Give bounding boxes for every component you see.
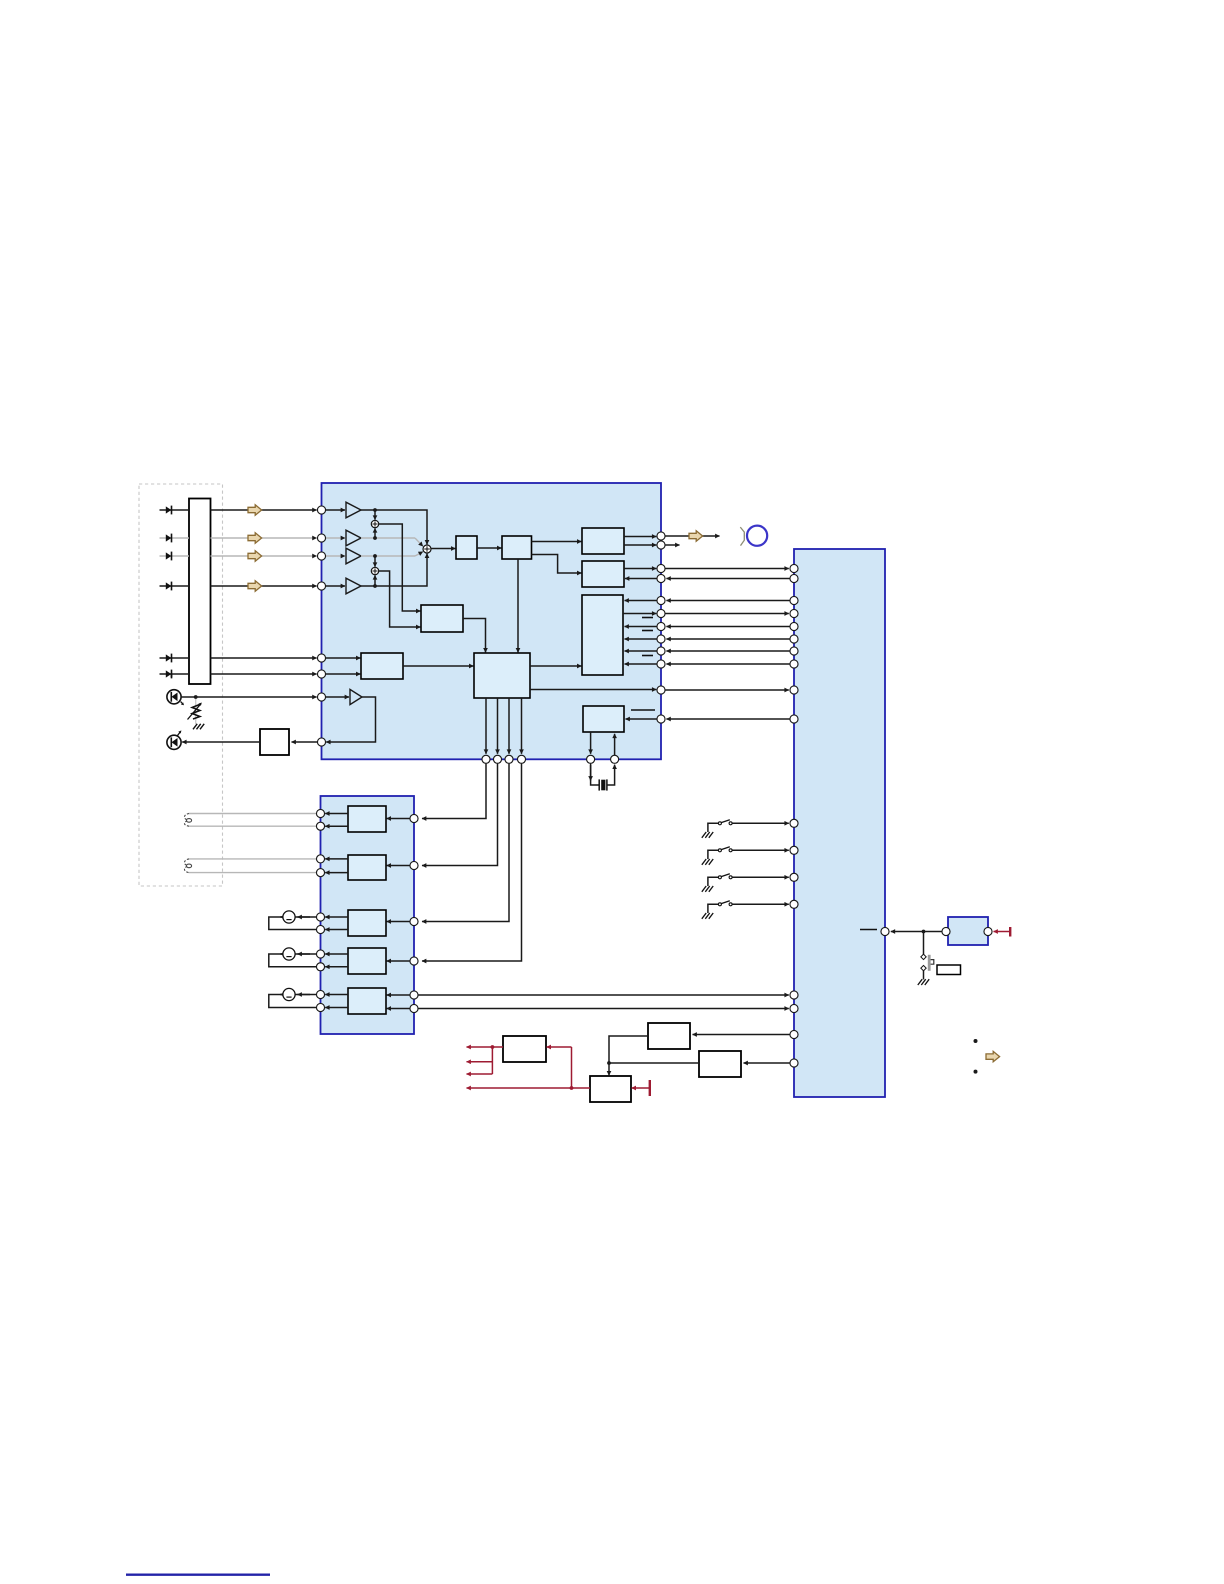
power switch S5 vertical — [923, 932, 925, 955]
wire U3 to U1 row 719 — [666, 718, 789, 720]
switch S5 to ground — [923, 970, 925, 979]
diagonal T3 to S3 — [415, 552, 423, 556]
wire B2 down to B8 — [517, 559, 519, 652]
stub T2 to S1 — [374, 528, 376, 538]
power terminal T1 — [649, 1080, 651, 1096]
wire U1 bottom1 to U2 — [422, 764, 486, 819]
headphone amp block U2 — [321, 796, 415, 1034]
wire U3 to U1 row 578 — [666, 578, 789, 580]
wire B4 out — [624, 568, 656, 570]
stub T1 to S1 — [374, 510, 376, 520]
pins U2 right edge — [410, 814, 418, 1012]
headphone amp ch block H1 — [348, 806, 386, 832]
power wire vertical 571 — [571, 1047, 573, 1088]
power terminal T2 — [1009, 927, 1011, 937]
junction node T1/S1 — [373, 508, 377, 512]
wire U1 bottom4 to U2 — [422, 764, 522, 961]
wire B9 bottom right (from crystal) — [614, 734, 616, 755]
crystal right wire — [607, 765, 615, 785]
label dash B5 c — [642, 655, 653, 657]
power wire into box A right — [547, 1046, 572, 1048]
wire pin to buffer T2 — [326, 537, 345, 539]
wire U3 to box C — [744, 1062, 790, 1064]
wire pin to B5 in5 — [625, 663, 657, 665]
wire B5 out — [623, 613, 656, 615]
wire row6 to U1 — [211, 673, 317, 675]
wire pin to buffer T1 — [326, 509, 345, 511]
wire pin to buffer T3 — [326, 555, 345, 557]
power wire U4 to terminal — [994, 931, 1010, 933]
power wire branch 2 — [467, 1061, 493, 1063]
pins U2 left edge — [316, 809, 324, 1011]
U2 in arrow row 961 — [387, 960, 410, 962]
buffer amp T5 — [350, 689, 362, 704]
diode D3 — [166, 552, 172, 561]
wire U3 to U1 row 651 — [666, 650, 789, 652]
wire B8 bottom 2 — [497, 698, 499, 754]
wire U2 to U3 row 1008 — [418, 1008, 788, 1010]
junction node T3/S2 — [373, 554, 377, 558]
wire node up to box B — [609, 1036, 648, 1063]
U2 out arrow row 954 — [325, 953, 348, 955]
wire U1 bottom2 to U2 — [422, 764, 498, 866]
switch S5 slider notch — [931, 960, 934, 965]
wire pin to B7 upper — [326, 657, 361, 659]
cable 2 end loop — [184, 859, 191, 873]
U2 out arrow row 917 — [325, 916, 348, 918]
I/O block B4 — [582, 561, 624, 587]
power wire D to terminal — [632, 1087, 650, 1089]
wire pin to B9 in — [626, 718, 657, 720]
wire S2 to B6 — [379, 571, 421, 627]
wire pin to B5 in4 — [625, 650, 657, 652]
crystal stub arrow — [590, 765, 592, 781]
dash label U3 right — [860, 929, 877, 931]
wire key input row 5 — [160, 657, 190, 659]
wire B2 to B3 — [532, 541, 582, 543]
footer link line — [126, 1573, 270, 1575]
wire U3 to U1 row 600 — [666, 600, 789, 602]
wire S1 to B6 — [379, 524, 421, 611]
serial interface block B5 — [582, 595, 623, 675]
pins U3 left edge — [790, 564, 798, 1067]
wire row5 to U1 — [211, 657, 317, 659]
wire pin536 to headphone — [665, 535, 719, 537]
wire B2 to B4 — [532, 555, 582, 574]
DAC block B3 — [582, 528, 624, 554]
power wire branch vertical — [491, 1047, 493, 1074]
wire U1 to box E — [292, 741, 322, 743]
wire B8 to B5 — [530, 665, 581, 667]
wire key input row 6 — [160, 673, 190, 675]
ground VR1 — [193, 724, 204, 730]
wire U3 to box B — [693, 1034, 790, 1036]
pins U1 bottom edge — [482, 755, 619, 763]
wire U3 to U1 row 664 — [666, 663, 789, 665]
U2 out arrow row 994 — [325, 994, 348, 996]
decor dot 1 — [974, 1039, 978, 1043]
pin U3 right edge — [881, 927, 889, 935]
U2 out arrow row 813 — [325, 813, 348, 815]
wire B8 bottom 4 — [521, 698, 523, 754]
stub T3 to S2 — [374, 556, 376, 567]
wire B3 out lower — [624, 544, 656, 546]
jack loop 3 — [269, 988, 317, 1007]
headphone cable 2 lower — [189, 872, 317, 874]
wire row3 to U1 — [211, 555, 317, 557]
junction node 571/1088 — [570, 1086, 574, 1090]
oscillator block B9 — [583, 706, 624, 732]
wire U3 right pin to U4 — [891, 931, 946, 933]
switch S5 contact lower — [921, 965, 926, 970]
LED D8 (power indicator) — [167, 730, 182, 749]
bus arrow olive 1 — [248, 505, 262, 515]
junction node 609 — [607, 1061, 611, 1065]
label dash B9 — [631, 709, 655, 711]
wire U1 to U3 row 568 — [665, 568, 788, 570]
wire key input row 2 — [160, 537, 190, 539]
wire pin545 stub — [665, 544, 679, 546]
wire node down to box D — [608, 1063, 610, 1075]
buffer amp T2 — [346, 530, 361, 546]
dashed enclosure (input panel) — [139, 484, 223, 886]
wire PD1 to U1 — [181, 696, 317, 698]
power wire A out left — [467, 1046, 504, 1048]
wire B8 bottom 1 — [485, 698, 487, 754]
wire box E to LED D8 — [182, 741, 260, 743]
sum circle S1 — [371, 520, 378, 527]
wire B3 out upper — [624, 536, 656, 538]
switch S5 slider bar — [928, 955, 931, 971]
wire T3 out — [361, 555, 415, 557]
filter block B1 — [456, 536, 477, 559]
line amp block H3 — [348, 910, 386, 936]
wire pin to B5 in3 — [625, 638, 657, 640]
U2 in arrow row 1008 — [387, 1008, 410, 1010]
junction node 492 — [491, 1045, 495, 1049]
wire T1 out to node S3 — [361, 510, 427, 544]
battery holder box F — [937, 965, 961, 975]
wire U3 to U1 row 626 — [666, 626, 789, 628]
wire row4 to U1 — [211, 585, 317, 587]
jack loop 2 — [269, 948, 317, 967]
crystal X1 — [599, 779, 607, 790]
wire U1 to U3 row 613 — [665, 613, 788, 615]
wire S3 to B1 — [431, 548, 455, 550]
remote sensor box E — [260, 729, 289, 755]
EEPROM box C — [699, 1051, 741, 1077]
wire U3 to U1 row 639 — [666, 638, 789, 640]
wire U1 bottom3 to U2 — [422, 764, 509, 922]
U2 out arrow row 858 — [325, 858, 348, 860]
wire U1 to U3 row 690 — [665, 689, 788, 691]
buffer amp T1 — [346, 502, 361, 518]
main IC block U1 — [322, 483, 662, 759]
diode D6 — [166, 670, 172, 679]
wire key input row 1 — [160, 509, 190, 511]
junction node T2/S1 — [373, 536, 377, 540]
buffer amp T3 — [346, 548, 361, 564]
LED PD1 (remote receiver) — [167, 690, 184, 706]
bus arrow olive 6 — [986, 1051, 1000, 1061]
diode D5 — [166, 654, 172, 663]
headphone cable 1 upper — [189, 813, 317, 815]
switch SW4 — [702, 901, 789, 919]
wire key input row 3 — [160, 555, 190, 557]
line amp block H5 — [348, 988, 386, 1014]
label dash B5 b — [642, 630, 653, 632]
junction node PD1/VR — [194, 695, 198, 699]
junction node 923 — [922, 930, 926, 934]
wire B1 to B2 — [477, 547, 501, 549]
DC-DC converter block U4 — [948, 917, 988, 945]
wire B8 to pin 690 — [530, 689, 656, 691]
junction node T4/S2 — [373, 584, 377, 588]
wire B6 to B8 — [463, 619, 486, 653]
diode D2 — [166, 534, 172, 543]
DSP core block B8 — [474, 653, 530, 698]
headphone cable 2 upper — [189, 858, 317, 860]
switch SW1 — [702, 820, 789, 838]
headphone jack symbol — [740, 526, 767, 546]
line amp block H4 — [348, 948, 386, 974]
power wire branch 3 — [467, 1073, 493, 1075]
wire pin to buffer T4 — [326, 585, 345, 587]
ADC block B7 — [361, 653, 403, 679]
bus arrow olive 3 — [248, 551, 262, 561]
wire pin to B5 in1 — [625, 600, 657, 602]
wire row2 to U1 — [211, 537, 317, 539]
U2 in arrow row 818 — [387, 818, 410, 820]
U2 out arrow row 929 — [325, 929, 348, 931]
headphone cable 1 lower — [189, 825, 317, 827]
wire B7 to B8 — [403, 665, 473, 667]
U2 in arrow row 921 — [387, 921, 410, 923]
buffer amp T4 — [346, 578, 361, 594]
U2 out arrow row 872 — [325, 872, 348, 874]
pins U1 right edge — [657, 532, 665, 723]
switch SW2 — [702, 847, 789, 865]
crystal circuit wires — [591, 764, 599, 785]
bus arrow olive 2 — [248, 533, 262, 543]
wire T5 loop to LED pin — [326, 697, 375, 742]
mixer block B6 — [421, 605, 463, 632]
ground S5 — [918, 979, 929, 985]
headphone amp ch block H2 — [348, 855, 386, 880]
label dash B5 a — [642, 617, 653, 619]
diagonal T2 to S3 — [415, 538, 423, 546]
U2 out arrow row 1007 — [325, 1007, 348, 1009]
reset IC box B — [648, 1023, 690, 1049]
decor dot 2 — [974, 1070, 978, 1074]
system control block U3 — [794, 549, 885, 1097]
wire key input row 4 — [160, 585, 190, 587]
wire row1 to U1 — [211, 509, 317, 511]
sum circle S2 — [371, 567, 378, 574]
switch S5 contact upper — [921, 954, 926, 959]
wire pin to B7 lower — [326, 673, 361, 675]
U2 out arrow row 826 — [325, 825, 348, 827]
jack loop 1 — [269, 911, 317, 930]
filter block B2 — [502, 536, 532, 559]
wire pin to B4 in — [625, 578, 657, 580]
power wire bottom rail — [467, 1087, 591, 1089]
wire U2 to U3 row 995 — [418, 994, 788, 996]
U2 out arrow row 966 — [325, 966, 348, 968]
switch SW3 — [702, 874, 789, 892]
regulator box A — [503, 1036, 546, 1062]
bus arrow olive 5 — [689, 531, 703, 541]
variable resistor VR1 — [188, 697, 202, 724]
diode D1 — [166, 506, 172, 515]
wire T4 out to node S3 — [361, 554, 427, 586]
wire box C to node — [609, 1062, 699, 1064]
wire B8 bottom 3 — [508, 698, 510, 754]
connector J1 — [189, 499, 211, 685]
wire pin to B5 in2 — [625, 626, 657, 628]
wire pin to buffer T5 — [326, 696, 349, 698]
pins U4 — [942, 927, 992, 935]
diode D4 — [166, 582, 172, 591]
stub T4 to S2 — [374, 575, 376, 586]
wire T2 out — [361, 537, 415, 539]
U2 in arrow row 865 — [387, 865, 410, 867]
pins U1 left edge — [317, 506, 325, 746]
wire B9 bottom left — [590, 732, 592, 754]
power switch box D — [590, 1076, 631, 1102]
cable 1 end loop — [184, 814, 191, 827]
U2 in arrow row 995 — [387, 994, 410, 996]
bus arrow olive 4 — [248, 581, 262, 591]
sum circle S3 — [423, 545, 431, 553]
